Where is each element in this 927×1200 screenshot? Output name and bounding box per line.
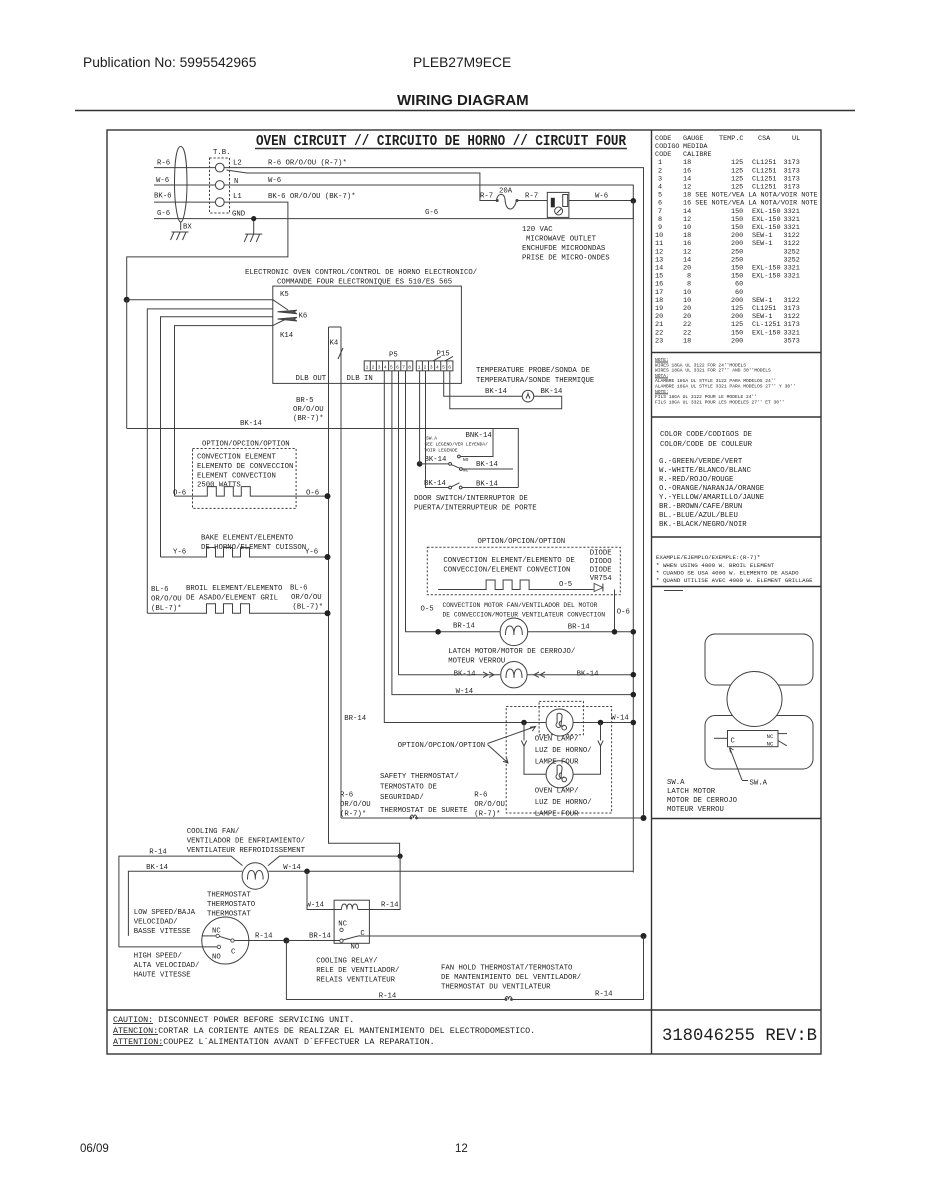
svg-text:W-14: W-14 <box>611 715 629 723</box>
svg-text:RELE DE VENTILADOR/: RELE DE VENTILADOR/ <box>316 967 399 975</box>
svg-text:SEGURIDAD/: SEGURIDAD/ <box>380 794 424 802</box>
svg-text:* WHEN USING 4000 W. BROIL ELE: * WHEN USING 4000 W. BROIL ELEMENT <box>656 562 775 569</box>
svg-text:318046255 REV:B: 318046255 REV:B <box>662 1026 817 1046</box>
svg-text:G-6: G-6 <box>157 210 170 218</box>
svg-text:BK-14: BK-14 <box>541 388 564 396</box>
svg-text:7: 7 <box>402 364 405 370</box>
svg-text:5: 5 <box>390 364 393 370</box>
svg-text:HIGH SPEED/: HIGH SPEED/ <box>134 953 182 961</box>
svg-text:Y.-YELLOW/AMARILLO/JAUNE: Y.-YELLOW/AMARILLO/JAUNE <box>659 494 764 502</box>
svg-text:VELOCIDAD/: VELOCIDAD/ <box>134 919 178 927</box>
svg-text:R-14: R-14 <box>595 991 613 999</box>
svg-text:TEMPERATURE PROBE/SONDA DE: TEMPERATURE PROBE/SONDA DE <box>476 367 590 375</box>
svg-text:DIODE: DIODE <box>590 567 612 575</box>
svg-text:R-6: R-6 <box>340 792 353 800</box>
svg-text:C: C <box>360 930 365 938</box>
svg-text:W.-WHITE/BLANCO/BLANC: W.-WHITE/BLANCO/BLANC <box>659 467 752 475</box>
svg-text:O-6: O-6 <box>617 609 630 617</box>
svg-text:BK-14: BK-14 <box>425 456 448 464</box>
svg-text:6: 6 <box>396 364 399 370</box>
svg-text:R-7: R-7 <box>525 193 538 201</box>
svg-text:ALAMBRE 18GA UL STYLE 3321 PAR: ALAMBRE 18GA UL STYLE 3321 PARA MODELOS … <box>655 384 796 390</box>
svg-text:(BR-7)*: (BR-7)* <box>293 415 324 423</box>
svg-text:COMMANDE FOUR ELECTRONIQUE ES: COMMANDE FOUR ELECTRONIQUE ES 510/ES 565 <box>277 279 452 287</box>
svg-text:THERMOSTAT DU VENTILATEUR: THERMOSTAT DU VENTILATEUR <box>441 984 551 992</box>
svg-text:PUERTA/INTERRUPTEUR DE PORTE: PUERTA/INTERRUPTEUR DE PORTE <box>414 505 537 513</box>
svg-text:SAFETY THERMOSTAT/: SAFETY THERMOSTAT/ <box>380 773 459 781</box>
svg-text:BROIL ELEMENT/ELEMENTO: BROIL ELEMENT/ELEMENTO <box>186 585 283 593</box>
svg-text:K4: K4 <box>330 340 339 348</box>
svg-text:R-7: R-7 <box>480 193 493 201</box>
svg-text:8: 8 <box>408 364 411 370</box>
svg-text:OR/O/OU: OR/O/OU <box>291 594 322 602</box>
svg-text:4: 4 <box>384 364 387 370</box>
svg-text:O-5: O-5 <box>421 606 434 614</box>
svg-text:LATCH MOTOR/MOTOR DE CERROJO/: LATCH MOTOR/MOTOR DE CERROJO/ <box>448 648 575 656</box>
svg-text:CODECALIBRE: CODECALIBRE <box>655 151 712 159</box>
svg-text:MOTOR DE CERROJO: MOTOR DE CERROJO <box>667 797 738 805</box>
svg-text:OPTION/OPCION/OPTION: OPTION/OPCION/OPTION <box>398 742 486 750</box>
svg-text:BL-6: BL-6 <box>151 586 169 594</box>
svg-text:BL.-BLUE/AZUL/BLEU: BL.-BLUE/AZUL/BLEU <box>659 512 738 520</box>
svg-text:COLOR CODE/CODIGOS DE: COLOR CODE/CODIGOS DE <box>660 431 752 439</box>
svg-text:BR-14: BR-14 <box>309 933 332 941</box>
svg-text:W-6: W-6 <box>268 177 281 185</box>
svg-text:NC: NC <box>767 733 774 740</box>
svg-text:BK-14: BK-14 <box>476 461 499 469</box>
svg-text:VR754: VR754 <box>590 575 613 583</box>
svg-text:LATCH MOTOR: LATCH MOTOR <box>667 788 716 796</box>
svg-text:FAN HOLD THERMOSTAT/TERMOSTATO: FAN HOLD THERMOSTAT/TERMOSTATO <box>441 965 573 973</box>
svg-text:3: 3 <box>378 364 381 370</box>
svg-text:THERMOSTAT DE SURETE: THERMOSTAT DE SURETE <box>380 807 468 815</box>
svg-text:ELECTRONIC OVEN CONTROL/CONTRO: ELECTRONIC OVEN CONTROL/CONTROL DE HORNO… <box>245 269 477 277</box>
svg-text:FILS 18GA UL 3122 POUR LE MODE: FILS 18GA UL 3122 POUR LE MODELE 24'' <box>655 394 757 400</box>
svg-text:R-14: R-14 <box>149 849 167 857</box>
svg-text:DE MANTENIMIENTO DEL VENTILADO: DE MANTENIMIENTO DEL VENTILADOR/ <box>441 974 581 982</box>
svg-text:L2: L2 <box>233 160 242 168</box>
svg-text:SW.A: SW.A <box>750 780 768 788</box>
svg-text:1: 1 <box>366 364 369 370</box>
svg-text:BK-14: BK-14 <box>424 480 447 488</box>
svg-text:G-6: G-6 <box>425 209 438 217</box>
svg-text:P5: P5 <box>389 352 398 360</box>
svg-text:NO: NO <box>212 954 221 962</box>
svg-text:Y-6: Y-6 <box>173 549 186 557</box>
svg-text:ELEMENTO DE CONVECCION: ELEMENTO DE CONVECCION <box>197 463 293 471</box>
svg-text:DLB OUT: DLB OUT <box>296 375 327 383</box>
svg-text:CONVECTION ELEMENT/ELEMENTO DE: CONVECTION ELEMENT/ELEMENTO DE <box>443 557 574 565</box>
svg-text:12: 12 <box>455 1143 468 1155</box>
svg-text:OR/O/OU: OR/O/OU <box>151 596 182 604</box>
svg-text:BR-14: BR-14 <box>453 623 476 631</box>
svg-text:OR/O/OU: OR/O/OU <box>340 801 371 809</box>
svg-text:(R-7)*: (R-7)* <box>340 811 366 819</box>
svg-text:COOLING RELAY/: COOLING RELAY/ <box>316 958 377 966</box>
svg-text:T.B.: T.B. <box>213 149 231 157</box>
svg-text:O.-ORANGE/NARANJA/ORANGE: O.-ORANGE/NARANJA/ORANGE <box>659 485 764 493</box>
svg-text:NO: NO <box>351 944 360 952</box>
svg-text:(BL-7)*: (BL-7)* <box>293 604 324 612</box>
svg-text:BK-14: BK-14 <box>240 420 263 428</box>
svg-text:4: 4 <box>436 364 439 370</box>
svg-text:LUZ DE HORNO/: LUZ DE HORNO/ <box>535 747 592 755</box>
svg-text:CONVECTION MOTOR FAN/VENTILADO: CONVECTION MOTOR FAN/VENTILADOR DEL MOTO… <box>443 602 598 609</box>
svg-text:G.-GREEN/VERDE/VERT: G.-GREEN/VERDE/VERT <box>659 458 743 466</box>
svg-text:CONVECTION ELEMENT: CONVECTION ELEMENT <box>197 454 276 462</box>
svg-text:BAKE ELEMENT/ELEMENTO: BAKE ELEMENT/ELEMENTO <box>201 535 294 543</box>
svg-text:Publication No: 5995542965: Publication No: 5995542965 <box>83 55 257 70</box>
svg-text:LAMPE FOUR: LAMPE FOUR <box>535 811 579 819</box>
svg-text:R-6 OR/O/OU (R-7)*: R-6 OR/O/OU (R-7)* <box>268 160 347 168</box>
svg-text:L1: L1 <box>233 193 242 201</box>
svg-text:ELEMENT CONVECTION: ELEMENT CONVECTION <box>197 473 276 481</box>
svg-text:2: 2 <box>372 364 375 370</box>
svg-text:FILS 18GA UL 3321 POUR LES MOD: FILS 18GA UL 3321 POUR LES MODELES 27'' … <box>655 399 785 405</box>
svg-text:OR/O/OU: OR/O/OU <box>293 406 324 414</box>
svg-text:O-5: O-5 <box>559 581 572 589</box>
svg-text:SEE LEGEND/VER LEYENDA/: SEE LEGEND/VER LEYENDA/ <box>425 442 489 448</box>
svg-text:VENTILADOR DE ENFRIAMIENTO/: VENTILADOR DE ENFRIAMIENTO/ <box>187 838 305 846</box>
svg-text:DIODO: DIODO <box>590 558 613 566</box>
svg-text:C: C <box>731 738 736 746</box>
svg-text:OPTION/OPCION/OPTION: OPTION/OPCION/OPTION <box>478 538 566 546</box>
svg-text:W-6: W-6 <box>156 177 169 185</box>
svg-text:BR.-BROWN/CAFE/BRUN: BR.-BROWN/CAFE/BRUN <box>659 503 742 511</box>
svg-text:DE HORNO/ELEMENT CUISSON: DE HORNO/ELEMENT CUISSON <box>201 544 306 552</box>
svg-text:LOW SPEED/BAJA: LOW SPEED/BAJA <box>134 909 196 917</box>
svg-text:BX: BX <box>183 224 192 232</box>
svg-text:WIRES 18GA UL 3321 FOR 27'' AN: WIRES 18GA UL 3321 FOR 27'' AND 30''MODE… <box>655 368 771 374</box>
svg-text:OPTION/OPCION/OPTION: OPTION/OPCION/OPTION <box>202 441 290 449</box>
svg-text:BK-14: BK-14 <box>485 388 508 396</box>
svg-text:06/09: 06/09 <box>80 1143 109 1155</box>
svg-text:TERMOSTATO DE: TERMOSTATO DE <box>380 784 437 792</box>
svg-text:NC: NC <box>463 468 469 474</box>
svg-text:BR-14: BR-14 <box>568 624 591 632</box>
svg-text:OR/O/OU: OR/O/OU <box>474 801 505 809</box>
svg-text:K5: K5 <box>280 291 289 299</box>
svg-text:K6: K6 <box>299 313 308 321</box>
svg-text:ATENCION:CORTAR LA CORIENTE AN: ATENCION:CORTAR LA CORIENTE ANTES DE REA… <box>113 1026 535 1036</box>
svg-text:DLB IN: DLB IN <box>347 375 373 383</box>
svg-text:NO: NO <box>463 457 469 463</box>
svg-text:R-14: R-14 <box>255 933 273 941</box>
svg-text:WIRES 18GA UL 3122 FOR 24''MOD: WIRES 18GA UL 3122 FOR 24''MODELS <box>655 362 746 368</box>
svg-text:2: 2 <box>424 364 427 370</box>
svg-text:OVEN LAMP/: OVEN LAMP/ <box>535 788 579 796</box>
svg-text:BL-6: BL-6 <box>290 585 308 593</box>
svg-text:BNK-14: BNK-14 <box>466 432 493 440</box>
svg-text:1: 1 <box>418 364 421 370</box>
svg-text:DE CONVECCION/MOTEUR VENTILATE: DE CONVECCION/MOTEUR VENTILATEUR CONVECT… <box>443 612 606 619</box>
svg-text:BR-14: BR-14 <box>344 715 367 723</box>
svg-text:OVEN CIRCUIT // CIRCUITO DE HO: OVEN CIRCUIT // CIRCUITO DE HORNO // CIR… <box>256 133 626 150</box>
svg-text:NC: NC <box>338 921 347 929</box>
svg-text:COOLING FAN/: COOLING FAN/ <box>187 828 240 836</box>
svg-text:LUZ DE HORNO/: LUZ DE HORNO/ <box>535 799 592 807</box>
svg-text:DE ASADO/ELEMENT GRIL: DE ASADO/ELEMENT GRIL <box>186 595 278 603</box>
svg-text:(R-7)*: (R-7)* <box>474 811 500 819</box>
svg-text:PLEB27M9ECE: PLEB27M9ECE <box>413 55 511 70</box>
svg-text:BK-6 OR/O/OU (BK-7)*: BK-6 OR/O/OU (BK-7)* <box>268 193 356 201</box>
svg-text:* QUAND UTILISE AVEC 4000 W. E: * QUAND UTILISE AVEC 4000 W. ELEMENT GRI… <box>656 577 813 584</box>
svg-text:HAUTE VITESSE: HAUTE VITESSE <box>134 972 191 980</box>
svg-text:TEMPERATURA/SONDE THERMIQUE: TEMPERATURA/SONDE THERMIQUE <box>476 377 594 385</box>
svg-text:VENTILATEUR REFROIDISSEMENT: VENTILATEUR REFROIDISSEMENT <box>187 847 306 855</box>
svg-text:BR-5: BR-5 <box>296 397 314 405</box>
svg-text:DOOR SWITCH/INTERRUPTOR DE: DOOR SWITCH/INTERRUPTOR DE <box>414 495 528 503</box>
svg-text:6: 6 <box>448 364 451 370</box>
svg-text:OVEN LAMP/: OVEN LAMP/ <box>535 736 579 744</box>
svg-text:3: 3 <box>430 364 433 370</box>
svg-text:Y-6: Y-6 <box>305 549 318 557</box>
svg-text:NC: NC <box>767 740 774 747</box>
svg-text:ALTA VELOCIDAD/: ALTA VELOCIDAD/ <box>134 962 200 970</box>
svg-text:BASSE VITESSE: BASSE VITESSE <box>134 928 191 936</box>
svg-text:SW.A: SW.A <box>426 436 437 442</box>
svg-text:BK.-BLACK/NEGRO/NOIR: BK.-BLACK/NEGRO/NOIR <box>659 521 747 529</box>
svg-text:ENCHUFDE MICROONDAS: ENCHUFDE MICROONDAS <box>522 245 606 253</box>
svg-text:MOTEUR VERROU: MOTEUR VERROU <box>448 658 505 666</box>
svg-text:COLOR/CODE DE COULEUR: COLOR/CODE DE COULEUR <box>660 441 753 449</box>
svg-text:2500 WATTS: 2500 WATTS <box>197 482 241 490</box>
svg-text:ALAMBRE 18GA UL STYLE 3122 PAR: ALAMBRE 18GA UL STYLE 3122 PARA MODELOS … <box>655 378 776 384</box>
svg-text:BK-6: BK-6 <box>154 193 172 201</box>
svg-text:LAMPE FOUR: LAMPE FOUR <box>535 759 579 767</box>
svg-text:(BL-7)*: (BL-7)* <box>151 605 182 613</box>
svg-text:CONVECCION/ELEMENT CONVECTION: CONVECCION/ELEMENT CONVECTION <box>443 567 570 575</box>
svg-text:5: 5 <box>442 364 445 370</box>
svg-text:DIODE: DIODE <box>590 550 612 558</box>
svg-text:R-6: R-6 <box>157 160 170 168</box>
svg-text:VOIR LEGENDE: VOIR LEGENDE <box>425 448 458 454</box>
svg-text:EXAMPLE/EJEMPLO/EXEMPLE:(R-7)*: EXAMPLE/EJEMPLO/EXEMPLE:(R-7)* <box>656 554 760 561</box>
svg-text:SW.A: SW.A <box>667 779 685 787</box>
svg-text:MOTEUR VERROU: MOTEUR VERROU <box>667 806 724 814</box>
svg-text:* CUANDO SE USA 4000 W. ELEMEN: * CUANDO SE USA 4000 W. ELEMENTO DE ASAD… <box>656 570 799 577</box>
svg-text:K14: K14 <box>280 332 294 340</box>
svg-text:THERMOSTATO: THERMOSTATO <box>207 901 256 909</box>
svg-text:W-14: W-14 <box>307 902 325 910</box>
svg-text:R.-RED/ROJO/ROUGE: R.-RED/ROJO/ROUGE <box>659 476 733 484</box>
svg-text:120 VAC: 120 VAC <box>522 226 553 234</box>
svg-text:W-6: W-6 <box>595 193 608 201</box>
svg-text:R-14: R-14 <box>381 902 399 910</box>
svg-text:R-6: R-6 <box>474 792 487 800</box>
svg-text:PRISE DE MICRO-ONDES: PRISE DE MICRO-ONDES <box>522 255 610 263</box>
svg-text:C: C <box>231 949 236 957</box>
svg-text:THERMOSTAT: THERMOSTAT <box>207 892 251 900</box>
svg-text:GND: GND <box>232 211 246 219</box>
svg-text:RELAIS VENTILATEUR: RELAIS VENTILATEUR <box>316 977 395 985</box>
svg-text:WIRING DIAGRAM: WIRING DIAGRAM <box>397 92 529 109</box>
svg-text:MICROWAVE OUTLET: MICROWAVE OUTLET <box>526 236 597 244</box>
